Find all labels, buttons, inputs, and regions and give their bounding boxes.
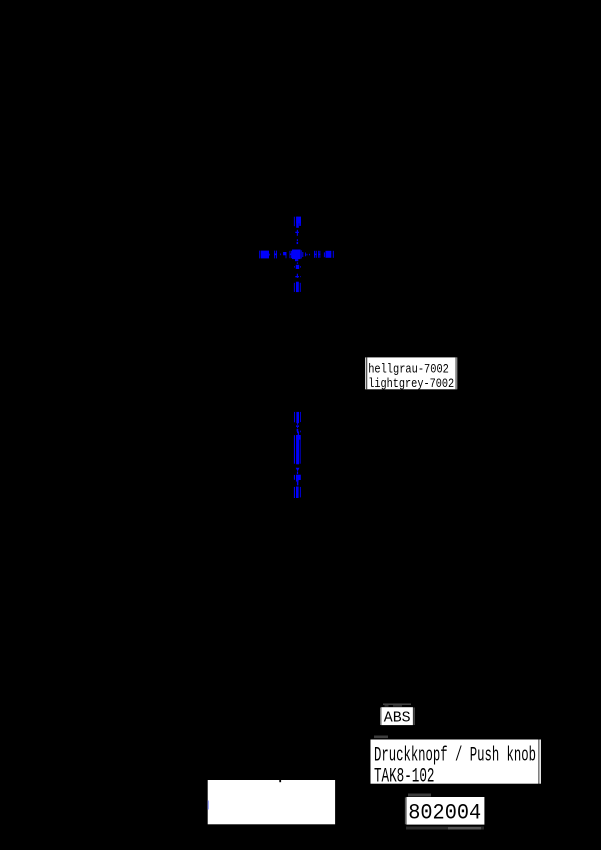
svg-text:TAK8-102: TAK8-102 [374,765,435,788]
colour note box hellgrau/lightgrey [365,357,457,390]
dimension text right of center [314,251,334,258]
dimension text group top (blue, rotated value above top view) [294,217,301,228]
front view vertical dimension text top [294,412,301,423]
front view dimension blob lower [294,475,301,486]
dimension arrow top [295,230,299,244]
front view vertical dimension text middle [294,435,301,464]
svg-text:802004: 802004 [408,799,481,825]
svg-text:lightgrey-7002: lightgrey-7002 [368,377,454,391]
dimension marks below center [294,262,301,278]
title box Druckknopf / Push knob [371,736,541,789]
svg-text:Druckknopf / Push knob: Druckknopf / Push knob [374,745,536,768]
article number box 802004 [405,794,485,830]
dimension text left of center [259,251,286,259]
logo box bottom left [208,780,335,824]
front view lower arrow [296,468,300,474]
svg-text:hellgrau-7002: hellgrau-7002 [368,363,449,377]
front view vertical dimension text bottom [294,487,301,499]
material box ABS [380,704,414,727]
dimension center cluster [290,250,310,262]
front view arrow and marks [296,423,301,435]
dimension text bottom of top view [294,282,301,292]
svg-text:ABS: ABS [384,709,411,727]
